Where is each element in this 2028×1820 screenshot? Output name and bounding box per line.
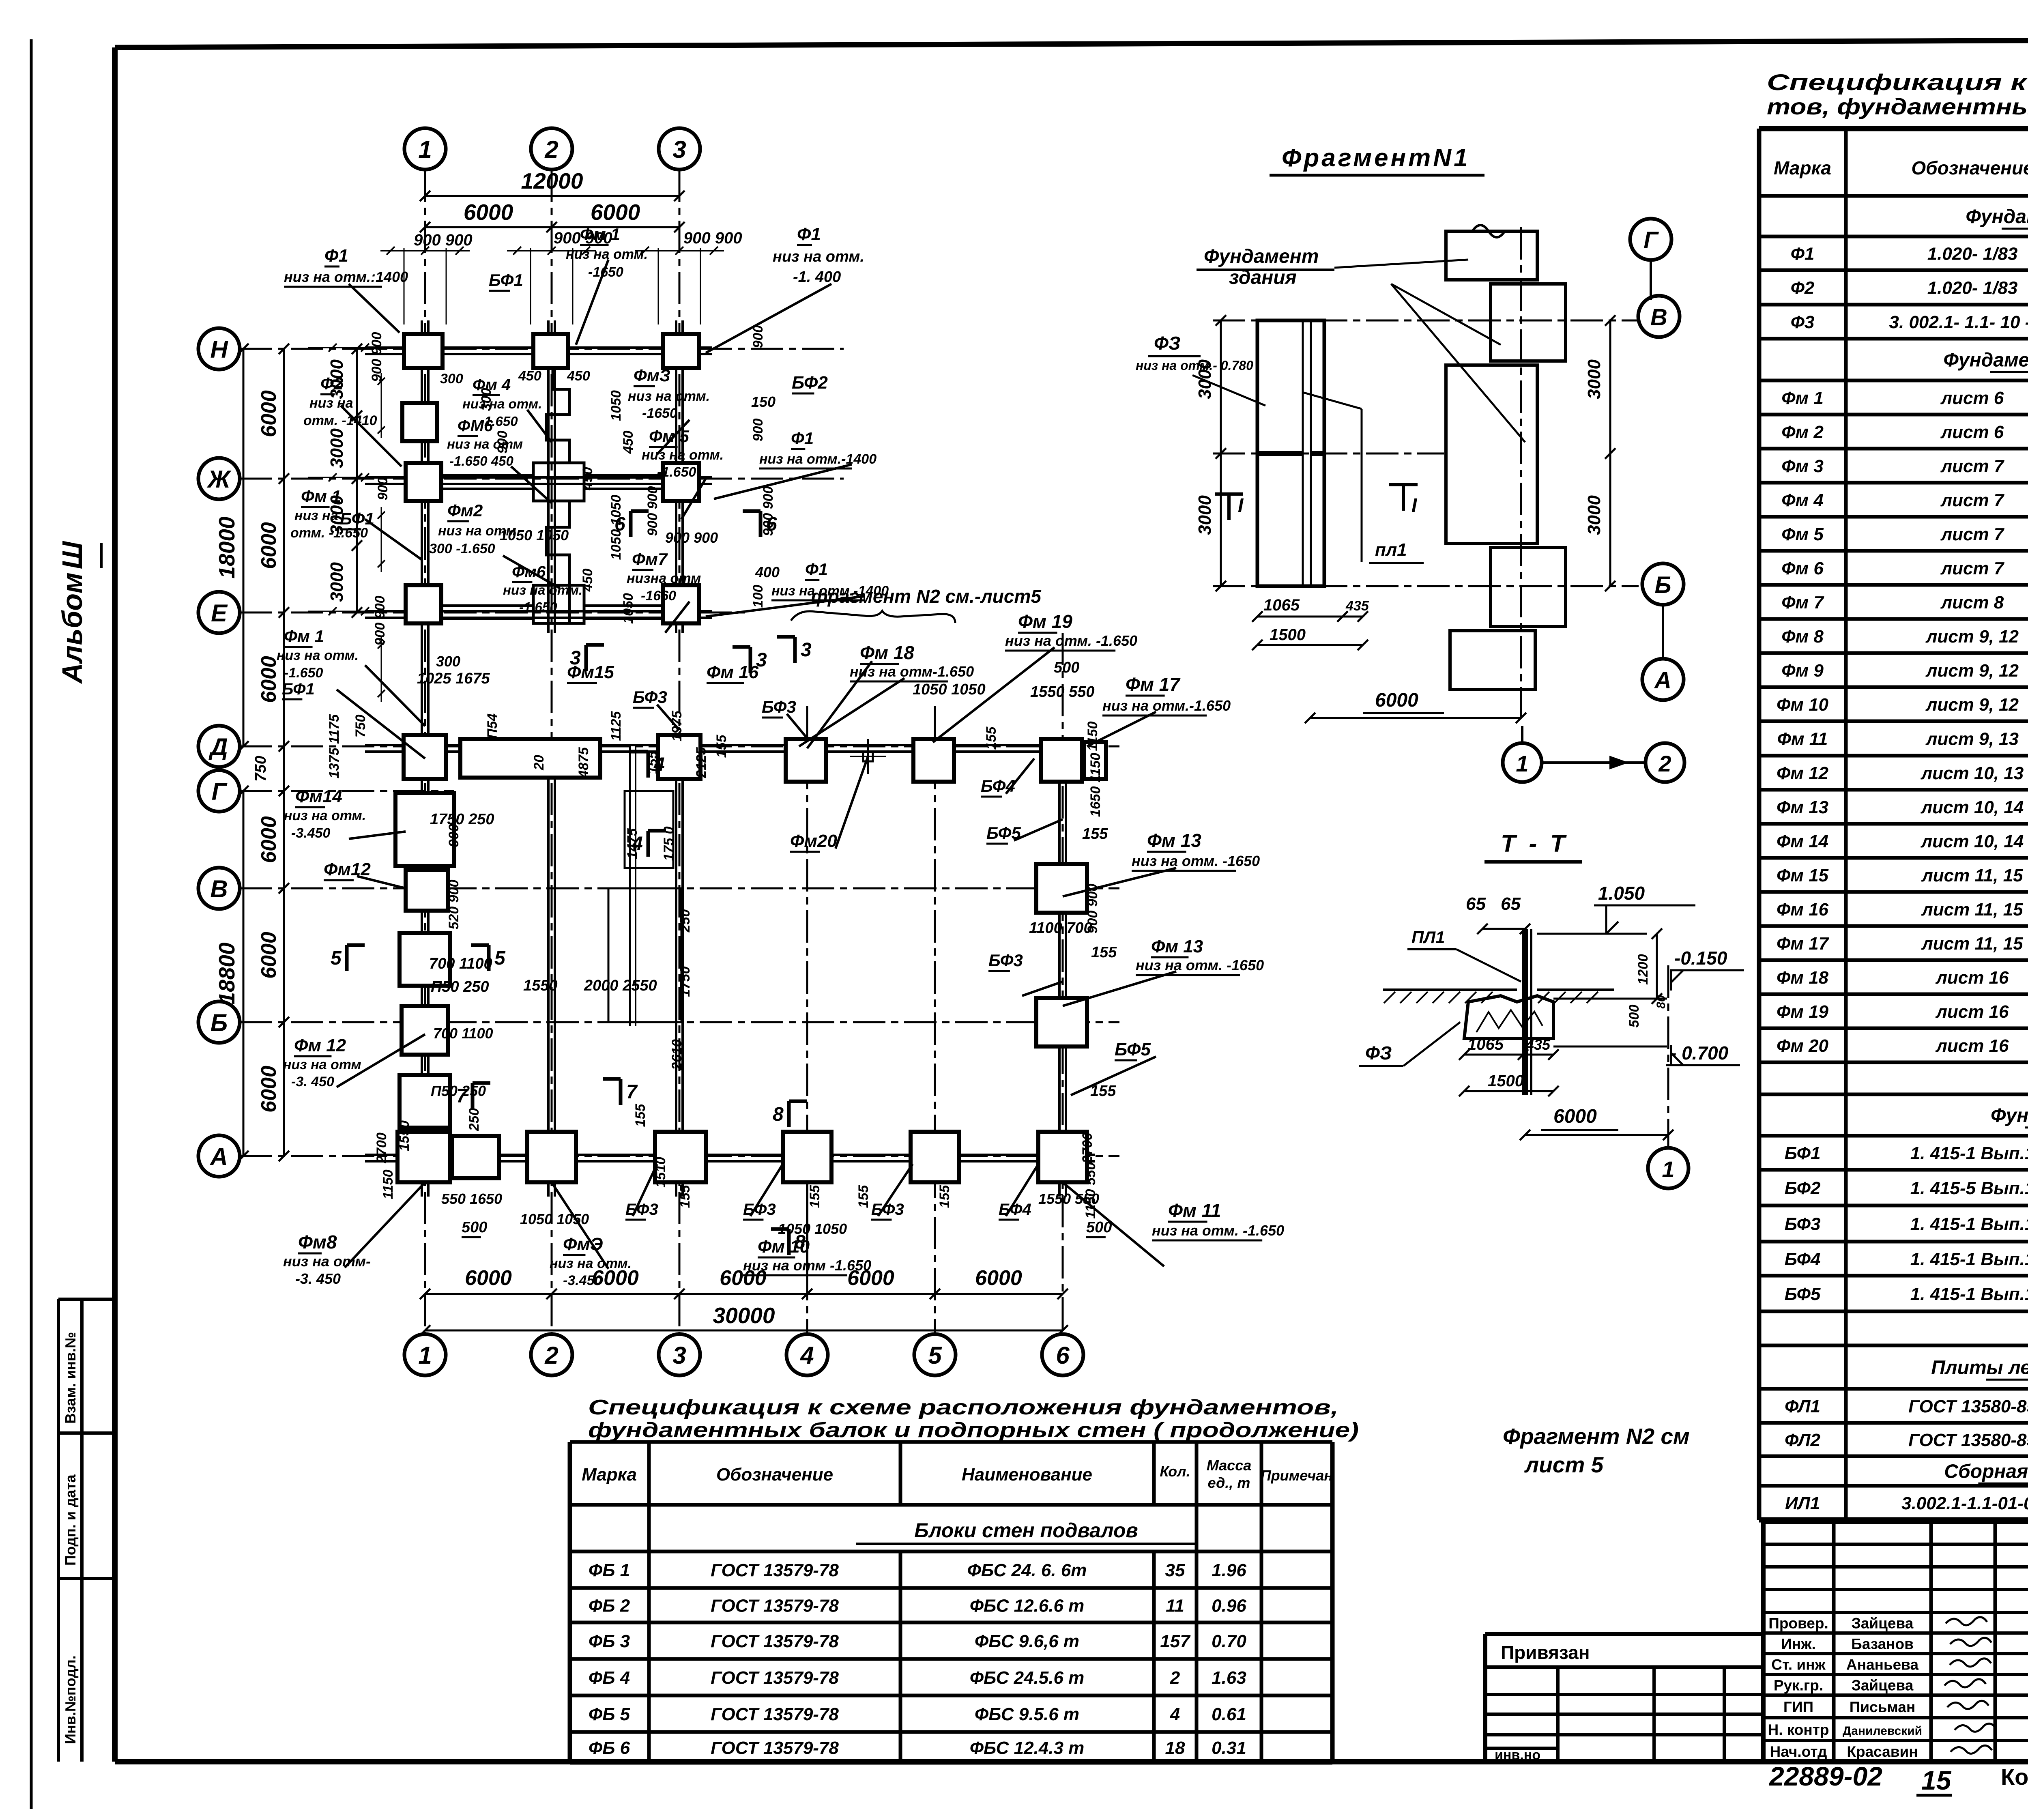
svg-text:1510: 1510 — [653, 1157, 668, 1188]
svg-text:1: 1 — [418, 136, 432, 163]
svg-text:БФ1: БФ1 — [282, 680, 315, 698]
svg-text:Ананьева: Ананьева — [1846, 1657, 1919, 1673]
svg-text:Фм 17: Фм 17 — [1777, 934, 1830, 954]
svg-text:лист 9, 12: лист 9, 12 — [1925, 627, 2019, 647]
svg-text:1. 415-1 Вып.1: 1. 415-1 Вып.1 — [1910, 1284, 2028, 1304]
svg-text:900 900: 900 900 — [414, 231, 473, 249]
svg-text:Инж.: Инж. — [1781, 1636, 1815, 1652]
svg-text:500: 500 — [1626, 1005, 1642, 1028]
svg-text:БФ3: БФ3 — [988, 951, 1023, 970]
svg-text:3000: 3000 — [327, 562, 347, 602]
svg-text:2125: 2125 — [694, 747, 709, 778]
svg-text:4: 4 — [1170, 1704, 1180, 1724]
svg-text:Фм 4: Фм 4 — [1781, 490, 1824, 510]
svg-text:отм. -1.650: отм. -1.650 — [290, 525, 368, 541]
svg-text:Фундаментные балки: Фундаментные балки — [1991, 1105, 2028, 1126]
svg-text:Фм 1: Фм 1 — [580, 225, 620, 244]
svg-text:-1.650: -1.650 — [284, 665, 323, 681]
svg-text:0.70: 0.70 — [1212, 1631, 1246, 1651]
svg-text:900 900: 900 900 — [665, 529, 718, 546]
svg-text:900: 900 — [750, 325, 766, 348]
svg-text:450: 450 — [621, 431, 636, 454]
svg-text:1.96: 1.96 — [1212, 1560, 1246, 1580]
svg-text:лист 5: лист 5 — [1524, 1452, 1604, 1477]
svg-text:Взам. инв.№: Взам. инв.№ — [62, 1332, 79, 1424]
svg-text:Ф1: Ф1 — [791, 429, 814, 448]
svg-text:ФБС 12.4.3 т: ФБС 12.4.3 т — [970, 1738, 1085, 1758]
svg-text:Марка: Марка — [1774, 157, 1831, 178]
svg-text:лист 10, 14: лист 10, 14 — [1921, 832, 2024, 851]
svg-text:12000: 12000 — [521, 168, 583, 193]
svg-text:лист 8: лист 8 — [1940, 593, 2004, 612]
svg-text:лист 9, 13: лист 9, 13 — [1925, 729, 2019, 749]
svg-text:2: 2 — [544, 136, 558, 163]
svg-text:БФ5: БФ5 — [1785, 1284, 1821, 1304]
svg-text:3: 3 — [672, 1342, 686, 1369]
svg-text:Альбом: Альбом — [56, 572, 88, 684]
svg-text:11: 11 — [1166, 1596, 1184, 1616]
svg-text:1100 700: 1100 700 — [1029, 920, 1092, 937]
svg-text:2700: 2700 — [1080, 1132, 1095, 1164]
svg-text:155: 155 — [1091, 944, 1117, 961]
svg-text:Фм 1: Фм 1 — [284, 627, 324, 646]
svg-text:БФ2: БФ2 — [1785, 1178, 1821, 1198]
svg-text:низ на отм. -1.650: низ на отм. -1.650 — [1152, 1222, 1284, 1239]
svg-text:лист 11, 15: лист 11, 15 — [1921, 866, 2023, 885]
svg-text:Фм 13: Фм 13 — [1147, 830, 1201, 851]
svg-text:ГОСТ 13579-78: ГОСТ 13579-78 — [711, 1704, 839, 1724]
svg-text:20: 20 — [531, 755, 547, 771]
svg-text:лист 7: лист 7 — [1940, 456, 2005, 476]
svg-text:низ на отм.: низ на отм. — [566, 247, 648, 262]
svg-text:3.002.1-1.1-01-01: 3.002.1-1.1-01-01 — [1901, 1493, 2028, 1513]
svg-text:ФБ 3: ФБ 3 — [589, 1631, 630, 1651]
svg-text:ГОСТ 13579-78: ГОСТ 13579-78 — [711, 1668, 839, 1688]
svg-text:Фм 13: Фм 13 — [1777, 797, 1828, 817]
svg-text:1.020- 1/83: 1.020- 1/83 — [1927, 278, 2018, 298]
svg-text:8: 8 — [773, 1104, 784, 1125]
svg-text:1.020- 1/83: 1.020- 1/83 — [1927, 244, 2018, 264]
svg-text:фундаментных балок и подпор: фундаментных балок и подпорных стен ( пр… — [588, 1418, 1359, 1442]
svg-text:Зайцева: Зайцева — [1852, 1677, 1914, 1694]
svg-text:ПЛ1: ПЛ1 — [1411, 928, 1445, 947]
svg-text:900: 900 — [446, 824, 462, 847]
svg-text:низна отм: низна отм — [627, 571, 701, 586]
svg-text:35: 35 — [1165, 1560, 1185, 1580]
svg-text:Ф1: Ф1 — [797, 224, 821, 244]
svg-text:18800: 18800 — [214, 942, 239, 1004]
svg-text:Фм 7: Фм 7 — [1781, 593, 1824, 612]
svg-text:250: 250 — [677, 909, 693, 933]
svg-text:ФЛ1: ФЛ1 — [1785, 1397, 1820, 1416]
svg-text:Инв.№подл.: Инв.№подл. — [62, 1655, 79, 1744]
svg-text:лист 9, 12: лист 9, 12 — [1925, 661, 2019, 681]
svg-text:Фм 13: Фм 13 — [1151, 937, 1203, 956]
svg-text:ФМ6: ФМ6 — [458, 417, 493, 435]
svg-text:I: I — [1411, 495, 1418, 516]
svg-text:I: I — [1238, 495, 1244, 516]
svg-text:Ф2: Ф2 — [1791, 278, 1815, 298]
svg-text:лист 6: лист 6 — [1940, 422, 2004, 442]
svg-text:Фм 2: Фм 2 — [1781, 422, 1824, 442]
svg-text:низ на отм.: низ на отм. — [550, 1256, 632, 1271]
svg-text:лист 11, 15: лист 11, 15 — [1921, 934, 2023, 954]
svg-text:0.96: 0.96 — [1212, 1596, 1246, 1616]
svg-text:Спецификация к схеме распол: Спецификация к схеме расположения фундам… — [588, 1396, 1338, 1419]
svg-text:Провер.: Провер. — [1768, 1615, 1828, 1632]
svg-text:низ на: низ на — [294, 508, 338, 523]
svg-text:300 -1.650: 300 -1.650 — [429, 541, 495, 557]
svg-text:900 900: 900 900 — [683, 229, 742, 247]
svg-text:Фундамент: Фундамент — [1204, 246, 1319, 267]
svg-text:-3. 450: -3. 450 — [295, 1270, 341, 1287]
svg-text:Фм8: Фм8 — [298, 1231, 337, 1253]
svg-text:ФБС 9.5.6 т: ФБС 9.5.6 т — [975, 1704, 1079, 1724]
svg-text:Копировал: Антипова: Копировал: Антипова — [2001, 1764, 2028, 1790]
svg-text:155: 155 — [677, 1185, 693, 1208]
svg-text:Масса: Масса — [1207, 1457, 1252, 1474]
svg-text:Фм12: Фм12 — [324, 860, 371, 879]
svg-text:Б: Б — [211, 1009, 228, 1036]
svg-text:30000: 30000 — [713, 1303, 775, 1328]
svg-text:Фм 16: Фм 16 — [707, 662, 759, 682]
svg-text:Ш: Ш — [56, 541, 88, 569]
svg-text:6000: 6000 — [591, 200, 640, 225]
svg-text:1. 415-1 Вып.1: 1. 415-1 Вып.1 — [1910, 1214, 2028, 1234]
svg-text:БФ3: БФ3 — [762, 697, 796, 716]
svg-text:18000: 18000 — [214, 516, 239, 578]
svg-text:Фм15: Фм15 — [567, 662, 614, 682]
svg-text:ФБ 4: ФБ 4 — [589, 1668, 630, 1688]
svg-text:900: 900 — [750, 419, 766, 442]
svg-text:низ на: низ на — [309, 395, 353, 411]
svg-text:В: В — [210, 875, 228, 902]
svg-text:лист 7: лист 7 — [1940, 490, 2005, 510]
svg-text:низ на отм.: низ на отм. — [642, 447, 724, 463]
svg-text:7: 7 — [626, 1081, 638, 1103]
svg-text:2000 2550: 2000 2550 — [584, 977, 657, 994]
svg-text:низ на отм.: низ на отм. — [773, 248, 864, 265]
svg-text:750: 750 — [353, 715, 368, 738]
svg-text:ФБС 24. 6. 6т: ФБС 24. 6. 6т — [967, 1560, 1087, 1580]
svg-text:300: 300 — [440, 371, 463, 387]
svg-text:ФБ 1: ФБ 1 — [589, 1560, 630, 1580]
svg-text:Фм 12: Фм 12 — [294, 1036, 346, 1055]
svg-text:Блоки стен подвалов: Блоки стен подвалов — [914, 1519, 1138, 1542]
svg-text:155: 155 — [937, 1185, 952, 1208]
svg-text:П50 250: П50 250 — [431, 978, 489, 995]
svg-text:ГОСТ 13579-78: ГОСТ 13579-78 — [711, 1560, 839, 1580]
svg-text:фрагмент N2 см.-лист5: фрагмент N2 см.-лист5 — [811, 586, 1042, 607]
svg-text:-1650: -1650 — [642, 406, 677, 421]
svg-text:Фм 11: Фм 11 — [1777, 729, 1828, 749]
svg-text:Наименование: Наименование — [962, 1465, 1092, 1485]
svg-text:Ж: Ж — [206, 466, 232, 493]
svg-text:-3.450: -3.450 — [563, 1273, 602, 1288]
svg-text:550 1650: 550 1650 — [441, 1190, 502, 1207]
svg-text:Фм 11: Фм 11 — [1168, 1200, 1221, 1221]
svg-text:-3. 450: -3. 450 — [291, 1074, 334, 1089]
svg-text:Фм 1: Фм 1 — [301, 487, 341, 506]
svg-text:400: 400 — [755, 564, 780, 580]
svg-text:1: 1 — [1516, 751, 1528, 776]
svg-text:6000: 6000 — [975, 1266, 1022, 1290]
svg-text:ФБС 24.5.6 т: ФБС 24.5.6 т — [970, 1668, 1085, 1688]
svg-text:низ на отм.:1400: низ на отм.:1400 — [284, 269, 408, 285]
svg-text:Сборная ж. б. подпорная стен: Сборная ж. б. подпорная стена — [1944, 1461, 2028, 1482]
svg-text:155: 155 — [1082, 825, 1108, 842]
svg-text:лист 7: лист 7 — [1940, 524, 2005, 544]
svg-text:Фм 9: Фм 9 — [1781, 661, 1824, 681]
svg-text:Плиты ленточных фундаментов: Плиты ленточных фундаментов — [1931, 1357, 2028, 1378]
svg-text:Привязан: Привязан — [1501, 1642, 1590, 1663]
svg-text:1. 415-1 Вып.1: 1. 415-1 Вып.1 — [1910, 1143, 2028, 1163]
svg-text:3000: 3000 — [1584, 495, 1604, 535]
svg-text:1500: 1500 — [1270, 626, 1306, 644]
svg-text:2700: 2700 — [374, 1132, 389, 1164]
svg-text:ГОСТ 13580-85: ГОСТ 13580-85 — [1908, 1397, 2028, 1416]
svg-text:БФ5: БФ5 — [1115, 1040, 1151, 1059]
svg-text:155: 155 — [714, 735, 729, 758]
svg-text:Письман: Письман — [1850, 1699, 1915, 1715]
svg-text:ГОСТ 13579-78: ГОСТ 13579-78 — [711, 1631, 839, 1651]
svg-text:3000: 3000 — [1195, 359, 1215, 399]
svg-text:БФ3: БФ3 — [633, 688, 667, 707]
svg-text:тов, фундаментных балок и: тов, фундаментных балок и подпорных стен… — [1767, 94, 2028, 119]
svg-text:ФмЗ: ФмЗ — [634, 366, 670, 385]
svg-text:Фм 14: Фм 14 — [1777, 832, 1828, 851]
svg-text:4875: 4875 — [576, 747, 591, 778]
svg-text:3. 002.1- 1.1- 10 - 01: 3. 002.1- 1.1- 10 - 01 — [1889, 312, 2028, 332]
svg-text:низ на отм.-1400: низ на отм.-1400 — [759, 451, 877, 467]
svg-text:15: 15 — [1921, 1765, 1952, 1795]
svg-text:Ф2: Ф2 — [320, 374, 343, 393]
svg-text:900: 900 — [495, 431, 510, 454]
svg-text:1500: 1500 — [1488, 1072, 1524, 1090]
svg-text:1050 1050: 1050 1050 — [500, 527, 569, 544]
svg-text:П50 250: П50 250 — [431, 1083, 486, 1099]
svg-text:Б: Б — [1654, 572, 1671, 598]
svg-text:ФЗ: ФЗ — [1365, 1042, 1392, 1064]
svg-text:3: 3 — [801, 639, 812, 661]
svg-text:6000: 6000 — [257, 522, 281, 569]
svg-text:Фм 10: Фм 10 — [758, 1237, 810, 1257]
svg-text:250: 250 — [466, 1108, 482, 1132]
svg-text:лист 16: лист 16 — [1935, 968, 2009, 988]
svg-text:ФБС 12.6.6 т: ФБС 12.6.6 т — [970, 1596, 1085, 1616]
svg-text:низ на отм.: низ на отм. — [284, 808, 366, 823]
svg-text:1050: 1050 — [621, 593, 636, 624]
svg-text:6000: 6000 — [257, 816, 281, 863]
svg-text:450: 450 — [580, 467, 595, 491]
svg-text:Фм 18: Фм 18 — [860, 642, 914, 663]
svg-text:5: 5 — [331, 948, 342, 969]
svg-text:Фм 12: Фм 12 — [1777, 763, 1829, 783]
svg-text:Зайцева: Зайцева — [1852, 1615, 1914, 1632]
svg-text:435: 435 — [1525, 1036, 1551, 1053]
svg-text:Г: Г — [212, 778, 228, 805]
svg-text:Ф1: Ф1 — [324, 246, 348, 266]
svg-text:1150: 1150 — [380, 1169, 396, 1199]
svg-text:-1. 400: -1. 400 — [793, 269, 841, 286]
svg-text:пл1: пл1 — [1375, 540, 1407, 560]
svg-text:6000: 6000 — [465, 1266, 512, 1290]
svg-text:лист 10, 13: лист 10, 13 — [1921, 763, 2024, 783]
svg-text:1065: 1065 — [1467, 1036, 1504, 1053]
svg-text:Красавин: Красавин — [1847, 1743, 1918, 1760]
svg-text:Н: Н — [210, 336, 228, 363]
svg-text:лист 16: лист 16 — [1935, 1036, 2009, 1056]
svg-text:Фундаменты сборные ж.-б: Фундаменты сборные ж.-б — [1966, 206, 2028, 228]
svg-text:ед., т: ед., т — [1208, 1474, 1250, 1491]
svg-text:1050 1050: 1050 1050 — [913, 681, 986, 698]
svg-text:1050 1050: 1050 1050 — [778, 1220, 847, 1237]
svg-text:900: 900 — [375, 477, 391, 501]
svg-text:100: 100 — [750, 585, 766, 608]
svg-text:Г: Г — [1643, 227, 1659, 254]
svg-text:В: В — [1650, 304, 1667, 331]
svg-text:Н. контр: Н. контр — [1768, 1721, 1829, 1738]
svg-text:18: 18 — [1165, 1738, 1185, 1758]
svg-text:Нач.отд: Нач.отд — [1770, 1743, 1827, 1760]
svg-text:157: 157 — [1160, 1631, 1191, 1651]
svg-text:низ на отм. -1.650: низ на отм. -1.650 — [1005, 632, 1137, 649]
svg-text:6: 6 — [1056, 1342, 1070, 1369]
svg-text:Фм 16: Фм 16 — [1777, 900, 1829, 920]
svg-text:Ф3: Ф3 — [1791, 312, 1815, 332]
svg-text:Базанов: Базанов — [1851, 1636, 1914, 1652]
svg-text:ГИП: ГИП — [1783, 1699, 1813, 1715]
svg-text:лист 16: лист 16 — [1935, 1002, 2009, 1022]
svg-text:0.31: 0.31 — [1212, 1738, 1246, 1758]
svg-text:80: 80 — [1654, 995, 1668, 1009]
svg-text:Обозначение: Обозначение — [716, 1465, 833, 1485]
svg-text:2: 2 — [1658, 751, 1671, 776]
svg-text:500: 500 — [462, 1219, 487, 1236]
svg-text:1125: 1125 — [608, 711, 624, 741]
svg-text:155: 155 — [633, 1104, 648, 1127]
svg-text:Т - Т: Т - Т — [1501, 830, 1568, 857]
svg-text:БФ3: БФ3 — [1785, 1214, 1821, 1234]
svg-text:лист 10, 14: лист 10, 14 — [1921, 797, 2024, 817]
svg-text:ФЛ2: ФЛ2 — [1785, 1430, 1820, 1450]
svg-text:155: 155 — [856, 1185, 871, 1208]
svg-text:ГОСТ 13579-78: ГОСТ 13579-78 — [711, 1738, 839, 1758]
svg-text:Ст. инж: Ст. инж — [1771, 1657, 1826, 1673]
svg-text:1.63: 1.63 — [1212, 1668, 1246, 1688]
svg-text:ГОСТ 13579-78: ГОСТ 13579-78 — [711, 1596, 839, 1616]
svg-text:Рук.гр.: Рук.гр. — [1774, 1677, 1823, 1694]
svg-text:450: 450 — [567, 368, 590, 384]
svg-text:6000: 6000 — [1375, 690, 1418, 711]
svg-text:П54: П54 — [485, 713, 500, 739]
svg-text:Фм 3: Фм 3 — [1781, 456, 1824, 476]
svg-text:Подп. и дата: Подп. и дата — [62, 1474, 79, 1566]
svg-text:Д: Д — [208, 733, 228, 761]
svg-text:БФ3: БФ3 — [625, 1201, 658, 1218]
svg-text:ГОСТ 13580-85: ГОСТ 13580-85 — [1908, 1430, 2028, 1450]
svg-text:Е: Е — [211, 600, 228, 627]
svg-text:низ на отм.: низ на отм. — [503, 582, 582, 597]
svg-text:6000: 6000 — [257, 390, 281, 437]
svg-text:65: 65 — [1501, 894, 1521, 914]
svg-text:1475: 1475 — [625, 828, 640, 859]
svg-text:2: 2 — [544, 1342, 558, 1369]
svg-text:инв.но: инв.но — [1495, 1747, 1540, 1763]
svg-text:5: 5 — [928, 1342, 942, 1369]
svg-text:Фм 5: Фм 5 — [1781, 524, 1824, 544]
svg-text:0.61: 0.61 — [1212, 1704, 1246, 1724]
svg-text:1550: 1550 — [523, 977, 558, 994]
svg-text:Фм 18: Фм 18 — [1777, 968, 1829, 988]
svg-text:1050: 1050 — [608, 390, 624, 421]
svg-text:2610: 2610 — [669, 1039, 685, 1070]
svg-text:БФ1: БФ1 — [489, 271, 523, 290]
svg-text:1: 1 — [1662, 1156, 1674, 1182]
svg-text:1.050: 1.050 — [1598, 883, 1645, 904]
svg-text:Фрагмент N2 см: Фрагмент N2 см — [1503, 1424, 1690, 1449]
svg-text:1. 415-5 Вып.1: 1. 415-5 Вып.1 — [1910, 1178, 2028, 1198]
svg-text:6000: 6000 — [1553, 1106, 1597, 1127]
svg-text:3000: 3000 — [1195, 495, 1215, 535]
svg-text:1650 1150: 1650 1150 — [1088, 753, 1103, 817]
svg-text:155: 155 — [645, 751, 660, 774]
svg-text:1: 1 — [418, 1342, 432, 1369]
svg-text:Фм 10: Фм 10 — [1777, 695, 1829, 715]
svg-text:2: 2 — [1170, 1668, 1180, 1688]
svg-text:155: 155 — [984, 726, 999, 750]
svg-text:3000: 3000 — [1584, 359, 1604, 399]
svg-text:-0.150: -0.150 — [1674, 948, 1727, 969]
svg-text:ИЛ1: ИЛ1 — [1785, 1493, 1820, 1513]
svg-text:Фм14: Фм14 — [295, 786, 342, 806]
svg-text:1. 415-1 Вып.1: 1. 415-1 Вып.1 — [1910, 1249, 2028, 1269]
svg-text:-3.450: -3.450 — [291, 825, 330, 841]
svg-text:500: 500 — [1054, 659, 1079, 676]
svg-text:Фм7: Фм7 — [632, 550, 668, 569]
svg-text:Фм 8: Фм 8 — [1781, 627, 1824, 647]
svg-text:низ на отм. -1650: низ на отм. -1650 — [1136, 957, 1264, 973]
svg-text:6000: 6000 — [464, 200, 513, 225]
svg-text:435: 435 — [1345, 598, 1369, 614]
svg-text:Фм 19: Фм 19 — [1018, 611, 1072, 632]
svg-text:ФрагментN1: ФрагментN1 — [1282, 144, 1470, 172]
svg-text:Фундаменты монолитные ж-б.: Фундаменты монолитные ж-б. — [1943, 349, 2028, 371]
svg-text:-1.650 450: -1.650 450 — [449, 453, 513, 468]
svg-text:155: 155 — [807, 1185, 823, 1208]
svg-text:450: 450 — [580, 569, 595, 592]
svg-text:-1660: -1660 — [641, 588, 676, 604]
svg-text:лист 9, 12: лист 9, 12 — [1925, 695, 2019, 715]
svg-text:6000: 6000 — [257, 932, 281, 979]
svg-text:низ на отм: низ на отм — [283, 1057, 361, 1072]
svg-text:Фм 19: Фм 19 — [1777, 1002, 1829, 1022]
svg-text:Фм 6: Фм 6 — [1781, 559, 1824, 578]
svg-text:1750: 1750 — [677, 966, 693, 997]
svg-text:450: 450 — [518, 368, 541, 384]
svg-text:Фм 1: Фм 1 — [1781, 388, 1824, 408]
svg-text:ФБ 5: ФБ 5 — [589, 1704, 630, 1724]
svg-text:БФ2: БФ2 — [792, 373, 828, 393]
svg-text:ФБ 6: ФБ 6 — [589, 1738, 630, 1758]
svg-text:низ на отм.: низ на отм. — [277, 648, 359, 663]
svg-text:4: 4 — [800, 1342, 814, 1369]
svg-text:900 900: 900 900 — [372, 595, 388, 645]
svg-text:-1.650: -1.650 — [519, 600, 557, 615]
svg-text:низ на отм.: низ на отм. — [462, 396, 542, 411]
svg-text:150: 150 — [751, 393, 776, 410]
svg-text:Фм20: Фм20 — [790, 831, 837, 851]
